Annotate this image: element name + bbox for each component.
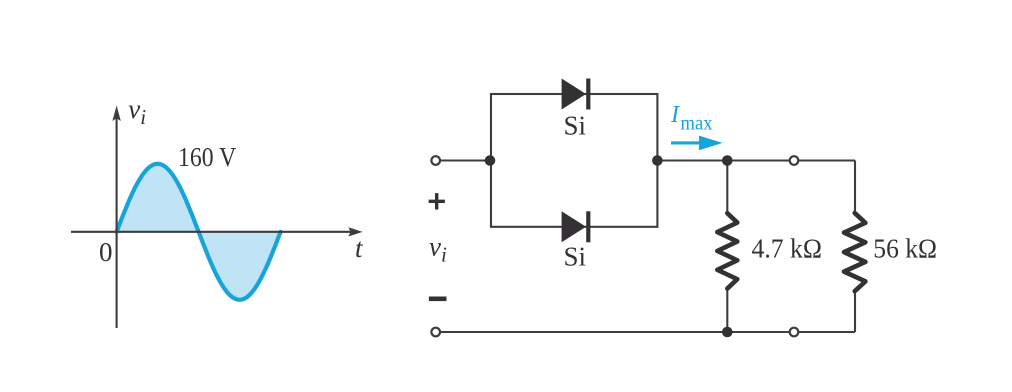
svg-text:max: max — [681, 112, 713, 134]
svg-text:56 kΩ: 56 kΩ — [873, 234, 937, 264]
svg-text:160 V: 160 V — [178, 142, 237, 172]
svg-text:Si: Si — [564, 111, 587, 141]
svg-text:Si: Si — [564, 242, 587, 272]
svg-text:vi: vi — [429, 231, 447, 266]
svg-text:vi: vi — [128, 94, 146, 129]
svg-text:t: t — [355, 233, 364, 263]
svg-text:0: 0 — [99, 237, 113, 267]
svg-text:4.7 kΩ: 4.7 kΩ — [752, 234, 822, 264]
svg-text:I: I — [670, 102, 680, 128]
